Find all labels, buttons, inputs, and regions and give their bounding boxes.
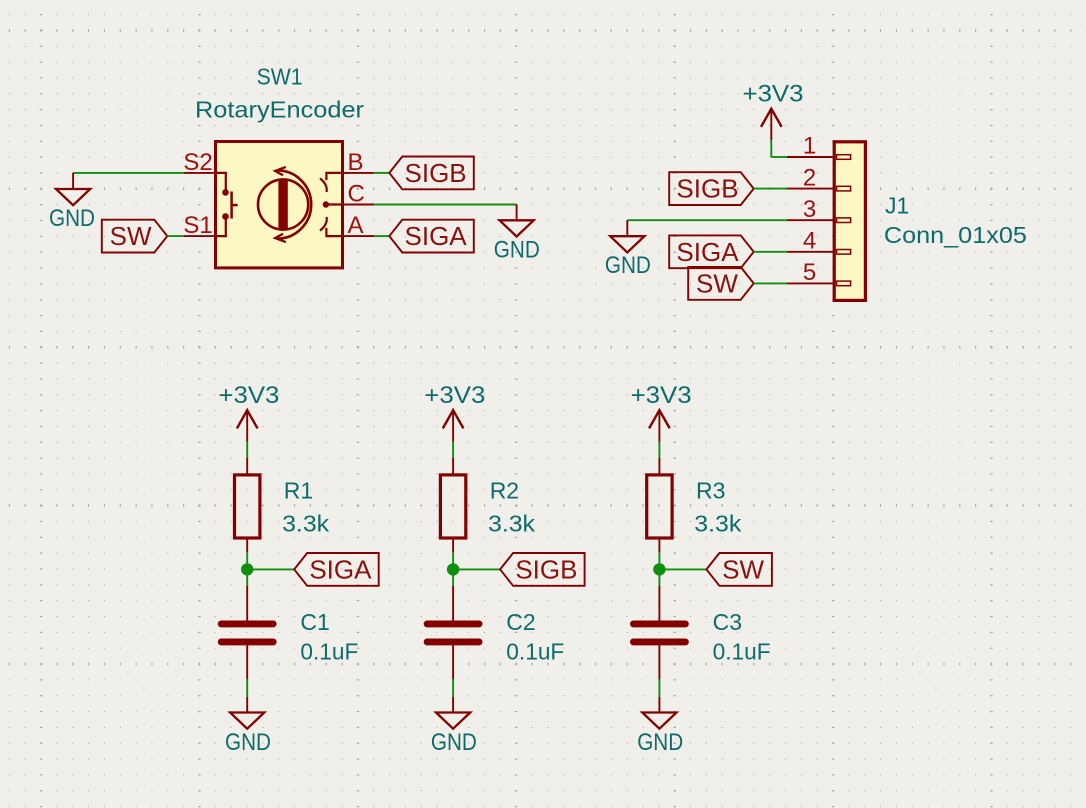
svg-text:+3V3: +3V3 [424, 382, 485, 409]
svg-text:B: B [348, 149, 364, 176]
svg-text:0.1uF: 0.1uF [300, 639, 358, 665]
svg-text:GND: GND [637, 729, 683, 756]
svg-text:Conn_01x05: Conn_01x05 [884, 222, 1027, 248]
svg-text:C3: C3 [713, 609, 742, 635]
svg-text:SW: SW [722, 554, 764, 584]
svg-text:S2: S2 [183, 149, 212, 176]
svg-text:GND: GND [431, 729, 477, 756]
svg-text:GND: GND [605, 252, 651, 279]
svg-text:S1: S1 [183, 212, 212, 239]
svg-text:0.1uF: 0.1uF [506, 639, 564, 665]
svg-text:C: C [348, 181, 365, 208]
svg-text:3.3k: 3.3k [488, 510, 536, 536]
svg-text:3.3k: 3.3k [694, 510, 742, 536]
svg-text:1: 1 [803, 133, 816, 160]
svg-text:R2: R2 [490, 477, 519, 503]
svg-text:R1: R1 [284, 477, 313, 503]
svg-text:GND: GND [494, 236, 540, 263]
svg-text:SIGA: SIGA [676, 237, 739, 267]
svg-text:GND: GND [225, 729, 271, 756]
svg-text:SW: SW [110, 221, 152, 251]
svg-text:SIGA: SIGA [405, 221, 468, 251]
svg-text:J1: J1 [885, 192, 909, 218]
svg-text:+3V3: +3V3 [218, 382, 279, 409]
svg-text:2: 2 [803, 164, 816, 191]
svg-text:SIGA: SIGA [309, 554, 372, 584]
svg-text:SIGB: SIGB [405, 158, 467, 188]
svg-text:3.3k: 3.3k [282, 510, 330, 536]
svg-text:RotaryEncoder: RotaryEncoder [195, 96, 364, 122]
svg-text:+3V3: +3V3 [743, 80, 804, 107]
svg-text:5: 5 [803, 259, 816, 286]
svg-text:SIGB: SIGB [515, 554, 577, 584]
svg-text:SIGB: SIGB [676, 174, 738, 204]
svg-text:3: 3 [803, 196, 816, 223]
svg-text:A: A [348, 212, 364, 239]
svg-text:GND: GND [49, 205, 95, 232]
svg-text:R3: R3 [696, 477, 725, 503]
svg-text:0.1uF: 0.1uF [713, 639, 771, 665]
svg-text:+3V3: +3V3 [631, 382, 692, 409]
svg-text:SW1: SW1 [257, 63, 303, 89]
svg-text:4: 4 [803, 228, 816, 255]
svg-text:SW: SW [696, 268, 738, 298]
svg-text:C1: C1 [300, 609, 329, 635]
svg-text:C2: C2 [506, 609, 535, 635]
